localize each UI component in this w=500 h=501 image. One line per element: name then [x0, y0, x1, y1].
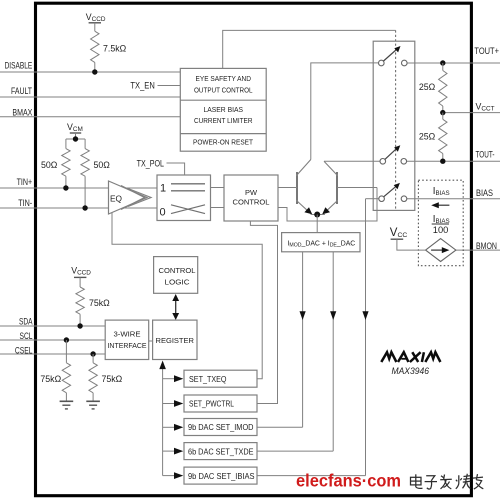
wire TIN- line [0, 207, 157, 209]
op-amp EQ equalizer [109, 181, 152, 214]
resistor 75k pull-down on CSEL [89, 351, 123, 401]
power VCCD (SDA pull-up supply) [71, 265, 91, 287]
svg-text:50Ω: 50Ω [41, 160, 58, 170]
svg-text:TX_EN: TX_EN [130, 81, 154, 91]
wire SET_TXEQ to EQ routing [112, 213, 262, 379]
resistor 25 ohm lower [419, 113, 447, 162]
logo MAXIM [381, 352, 440, 362]
node TX_EN label and wire [130, 81, 180, 91]
resistor 25 ohm upper [419, 63, 447, 113]
block output switch box [373, 41, 415, 210]
svg-text:SCL: SCL [20, 331, 33, 341]
switch SW3 BIAS [379, 183, 407, 202]
node junction dot SDA/75k [77, 323, 82, 328]
node SDA label [19, 316, 33, 326]
node BIAS label [476, 188, 493, 198]
power VCCD (top-left supply) [86, 12, 106, 31]
wire register bus with up arrow [159, 361, 166, 476]
svg-text:75kΩ: 75kΩ [102, 374, 123, 384]
node CSEL label [15, 345, 33, 355]
wire BIAS switch left wire [366, 198, 379, 200]
node BMAX label [12, 107, 32, 117]
svg-text:OUTPUT CONTROL: OUTPUT CONTROL [194, 85, 253, 94]
svg-text:TIN-: TIN- [18, 198, 32, 208]
node junction dot TIN+/50 [63, 185, 68, 190]
wire FAULT line [0, 96, 180, 98]
mux polarity selector box [157, 175, 211, 221]
svg-text:SET_PWCTRL: SET_PWCTRL [189, 400, 235, 409]
svg-text:9b DAC SET_IMOD: 9b DAC SET_IMOD [188, 423, 254, 432]
wire CSEL line [0, 353, 105, 355]
svg-text:DISABLE: DISABLE [5, 61, 33, 71]
svg-text:INTERFACE: INTERFACE [108, 341, 147, 350]
svg-text:SDA: SDA [19, 316, 33, 326]
wire TOUT+ line [407, 62, 500, 64]
svg-text:25Ω: 25Ω [419, 82, 436, 92]
node IBIAS/100 label [432, 214, 450, 235]
block 6b DAC SET_TXDE [184, 443, 257, 460]
svg-text:TX_POL: TX_POL [137, 158, 164, 168]
block 9b DAC SET_IBIAS [184, 467, 257, 484]
svg-text:CONTROL: CONTROL [159, 266, 196, 275]
wire IBIAS direction arrow [431, 202, 449, 208]
svg-text:75kΩ: 75kΩ [40, 374, 61, 384]
svg-text:1: 1 [160, 183, 166, 195]
watermark chinese 电 [411, 474, 423, 488]
wire SET_TXDE horizontal [257, 450, 333, 452]
switch SW2 TOUT- [380, 145, 407, 164]
wire SCL line [0, 339, 105, 341]
block PW CONTROL [224, 175, 278, 221]
transistor Q2 right of output pair [322, 161, 377, 214]
wire branch arrow to SET_TXEQ [163, 375, 184, 382]
node TOUT- label [476, 150, 495, 160]
svg-text:0: 0 [160, 207, 166, 219]
switch SW1 TOUT+ [379, 46, 408, 66]
block 9b DAC SET_IMOD [184, 419, 257, 436]
block SET_TXEQ [184, 370, 257, 387]
svg-text:7.5kΩ: 7.5kΩ [103, 43, 127, 53]
node junction dot TOUT-/25 [440, 159, 445, 164]
node junction dot VCCT [440, 110, 445, 115]
watermark chinese 子 [425, 476, 437, 489]
svg-text:FAULT: FAULT [11, 86, 32, 96]
wire TXDE DAC sink line with arrow [330, 252, 336, 451]
svg-text:TIN+: TIN+ [17, 177, 33, 187]
svg-text:CONTROL: CONTROL [233, 198, 270, 207]
node TIN+ label [17, 177, 33, 187]
node TOUT+ label [474, 46, 499, 56]
wire dashed switch control line [395, 30, 397, 209]
svg-text:TOUT+: TOUT+ [474, 46, 499, 56]
block IBIAS monitor dashed box [418, 180, 463, 266]
wire double arrow control logic / register [172, 294, 179, 320]
svg-text:9b DAC SET_IBIAS: 9b DAC SET_IBIAS [188, 472, 255, 481]
svg-text:3-WIRE: 3-WIRE [114, 330, 141, 339]
wire BMAX line [0, 116, 180, 118]
current source diamond BMON [426, 239, 456, 262]
svg-text:100: 100 [433, 225, 449, 235]
svg-text:CURRENT LIMITER: CURRENT LIMITER [194, 116, 253, 125]
node junction dot TOUT+/25 [440, 60, 445, 65]
wire PW control to right base cross-under [278, 188, 377, 222]
node TIN- label [18, 198, 32, 208]
power VCC supply [390, 227, 426, 250]
wire SET_IBIAS horizontal [257, 475, 366, 477]
node FAULT label [11, 86, 32, 96]
svg-text:6b DAC SET_TXDE: 6b DAC SET_TXDE [188, 447, 254, 456]
svg-text:EYE SAFETY AND: EYE SAFETY AND [196, 74, 252, 83]
power VCM supply [66, 122, 85, 142]
transistor Q1 left of output pair [278, 160, 312, 215]
node junction dot DISABLE/7.5k [92, 69, 97, 74]
wire branch arrow to SET_IBIAS [163, 472, 184, 479]
wire TIN+ line [0, 187, 157, 189]
svg-text:SET_TXEQ: SET_TXEQ [189, 375, 227, 384]
wire TOUT- line [407, 160, 500, 162]
resistor 75k pull-down on SCL [40, 337, 70, 401]
svg-text:BMAX: BMAX [12, 107, 32, 117]
wire mux to PW control (2 lines) [211, 188, 225, 208]
svg-text:BMON: BMON [476, 241, 497, 251]
wire branch arrow to SET_TXDE [163, 448, 184, 455]
node junction dot TIN-/50 [82, 205, 87, 210]
svg-text:50Ω: 50Ω [94, 160, 111, 170]
wire 3-wire to register connector [149, 340, 153, 342]
wire TOUT+ collector riser [311, 63, 378, 160]
wire BIAS line [407, 198, 500, 200]
watermark elecfans.com [296, 471, 401, 491]
wire branch arrow to SET_IMOD [163, 424, 184, 431]
resistor 50 ohm right (TIN- termination) [81, 139, 110, 208]
wire branch arrow to SET_PWCTRL [163, 400, 184, 407]
block REGISTER [153, 320, 197, 359]
wire SDA line [0, 325, 105, 327]
wire IMOD DAC sink line with arrow [300, 252, 306, 427]
wire SET_PWCTRL to PW CONTROL routing [250, 221, 277, 404]
resistor 75k pull-up on SDA [76, 287, 110, 326]
wire IBIAS line with arrow [362, 199, 368, 476]
resistor 7.5k pull-up on DISABLE [91, 31, 127, 72]
node BMON label [476, 241, 497, 251]
block EYE SAFETY / LASER BIAS / POWER-ON RESET [180, 68, 266, 151]
watermark chinese 友 [473, 474, 484, 489]
wire SET_IMOD horizontal [257, 426, 303, 428]
svg-text:25Ω: 25Ω [419, 131, 436, 141]
resistor 50 ohm left (TIN+ termination) [41, 139, 70, 188]
wire eye safety top control line [223, 30, 396, 68]
svg-text:BIAS: BIAS [476, 188, 493, 198]
wire TOUT- line from collector [324, 160, 380, 162]
ground symbol left [60, 401, 74, 409]
svg-text:MAX3946: MAX3946 [392, 366, 430, 377]
svg-text:elecfans·com: elecfans·com [296, 471, 401, 491]
watermark chinese 发 [440, 475, 452, 490]
node VCCT label [476, 102, 495, 113]
svg-text:REGISTER: REGISTER [156, 336, 195, 345]
block SET_PWCTRL [184, 395, 257, 412]
svg-text:75kΩ: 75kΩ [89, 298, 110, 308]
wire VCCT line [443, 112, 500, 114]
block 3-WIRE INTERFACE [105, 320, 149, 359]
node TX_POL label and wire [137, 158, 185, 175]
watermark chinese 烧 [456, 474, 471, 489]
svg-text:IMOD_DAC + IDE_DAC: IMOD_DAC + IDE_DAC [288, 240, 356, 248]
node SCL label [20, 331, 33, 341]
svg-text:LOGIC: LOGIC [165, 277, 191, 286]
wire DISABLE line [0, 71, 180, 73]
svg-text:LASER BIAS: LASER BIAS [204, 105, 244, 114]
svg-text:CSEL: CSEL [15, 345, 33, 355]
wire BMON line [456, 249, 500, 251]
svg-text:EQ: EQ [110, 195, 122, 204]
ground symbol right [86, 401, 100, 409]
wire emitter bar and junction [311, 212, 325, 233]
svg-text:TOUT-: TOUT- [476, 150, 495, 160]
node IBIAS label [433, 186, 450, 197]
node MAX3946 part number [392, 366, 430, 377]
svg-text:POWER-ON RESET: POWER-ON RESET [193, 138, 253, 147]
block IMOD_DAC + IDE_DAC [282, 233, 360, 252]
block CONTROL LOGIC [154, 257, 198, 294]
svg-text:PW: PW [245, 188, 257, 197]
node DISABLE label [5, 61, 33, 71]
